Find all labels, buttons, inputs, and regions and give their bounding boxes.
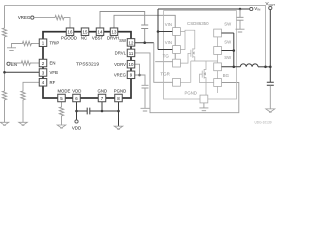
capacitor C_OUT [267, 67, 274, 86]
svg-text:TRIP: TRIP [50, 40, 60, 45]
terminal EN [7, 62, 10, 65]
node VIN pin stub [157, 30, 160, 33]
CSD pin SW 1 box [214, 29, 222, 37]
wire PGND pin8 [118, 102, 120, 126]
svg-text:VIN: VIN [165, 40, 172, 45]
node VFB junction [3, 71, 6, 74]
pin 4 RF box [39, 79, 47, 87]
resistor R_FB_bot [2, 90, 6, 101]
wire DRVL [135, 53, 239, 113]
wire BG gate [200, 74, 214, 82]
node GND junction [101, 110, 104, 113]
svg-text:MODE: MODE [57, 89, 70, 94]
wire VREG pin9 [135, 75, 145, 85]
wire [34, 17, 54, 19]
svg-text:16: 16 [68, 30, 73, 35]
pin 15 NC box [81, 28, 89, 36]
pin 16 PGOOD box [66, 28, 74, 36]
svg-text:DRVL: DRVL [115, 51, 127, 56]
wire TGR internal riser [180, 61, 190, 82]
node VOUT junction [269, 66, 272, 69]
svg-text:PGND: PGND [114, 89, 126, 94]
CSD pin VIN 2 box [173, 46, 181, 54]
wire SW output [222, 66, 241, 68]
node VREG junction [138, 74, 141, 77]
pin 14 VBST box [96, 28, 104, 36]
wire [65, 18, 71, 28]
svg-text:CSD86350: CSD86350 [187, 21, 209, 26]
svg-text:10: 10 [129, 62, 134, 67]
wire VBST [100, 12, 145, 28]
terminal V_IN [250, 7, 253, 10]
pin 9 VREG box [127, 71, 135, 79]
wire SW rail [233, 33, 235, 67]
wire feedback divider rail [4, 6, 6, 28]
wire MODE resistor [61, 102, 63, 106]
svg-text:15: 15 [83, 30, 88, 35]
CSD pin VIN 1 box [173, 28, 181, 36]
transistor Q_high internal drain wire [180, 30, 194, 49]
svg-text:GND: GND [98, 89, 108, 94]
resistor R_FB_top [2, 27, 6, 38]
svg-text:UDG-10139: UDG-10139 [254, 120, 271, 124]
svg-text:EN: EN [50, 61, 56, 66]
wire SW1 stub [222, 32, 234, 34]
node SW/BST junction [143, 41, 146, 44]
svg-text:VDD: VDD [72, 89, 81, 94]
resistor R_RF [21, 90, 25, 101]
node PGND junction [117, 110, 120, 113]
capacitor C_VREG [142, 85, 149, 88]
wire [61, 117, 63, 126]
ground bar (C_IN) [236, 29, 245, 32]
CSD pin SW 2 box [214, 47, 222, 55]
svg-text:SW: SW [119, 38, 127, 43]
terminal VREG [31, 16, 34, 19]
svg-text:VDD: VDD [72, 126, 81, 131]
wire [144, 29, 146, 43]
svg-text:NC: NC [81, 36, 87, 41]
wire VOUT drop [269, 10, 271, 67]
IC U2 CSD86350 outline [164, 11, 237, 99]
pin 11 DRVL box [127, 49, 135, 57]
svg-text:SW: SW [224, 39, 232, 44]
ground bar (VREG cap) [141, 108, 150, 111]
ground arrow (C_OUT) [266, 109, 275, 112]
wire DRVH [114, 15, 175, 59]
wire [4, 38, 6, 91]
wire [22, 101, 24, 123]
wire VFB [5, 71, 40, 73]
CSD pin PGND box [200, 95, 208, 103]
wire TG stub [155, 61, 172, 63]
wire VIN stub 1 [158, 31, 173, 33]
svg-text:11: 11 [129, 51, 134, 56]
pin 12 SW box [127, 39, 135, 47]
svg-text:PGND: PGND [185, 90, 197, 95]
wire [144, 88, 146, 108]
resistor R_EN [20, 61, 31, 65]
svg-text:BG: BG [223, 73, 230, 78]
wire [258, 66, 270, 68]
terminal VDD [75, 120, 78, 123]
wire PGND to ground [203, 103, 205, 108]
wire [10, 62, 21, 64]
pin 13 DRVH box [110, 28, 118, 36]
CSD pin BG box [214, 79, 222, 87]
capacitor C_IN [237, 9, 244, 20]
pin 8 PGND box [115, 94, 123, 102]
wire [4, 101, 6, 123]
ground arrow (RF) [19, 122, 28, 125]
pin 6 VDD box [73, 94, 81, 102]
ground bar (CSD PGND) [199, 108, 208, 111]
wire RF [23, 82, 39, 90]
wire VDD [76, 102, 78, 120]
svg-text:TGR: TGR [160, 72, 170, 77]
CSD pin TGR box [173, 78, 181, 86]
ground arrow (PGND) [114, 126, 123, 129]
resistor R_MODE [59, 106, 63, 117]
svg-text:PGOOD: PGOOD [61, 36, 77, 41]
node VDD junction [75, 110, 78, 113]
pin 7 GND box [98, 94, 106, 102]
svg-text:RF: RF [50, 80, 56, 85]
transistor Q_low drain wire [204, 61, 206, 70]
svg-text:VREG: VREG [18, 15, 31, 20]
wire GND pin7 [101, 102, 103, 111]
wire [269, 85, 271, 109]
svg-text:VFB: VFB [50, 70, 58, 75]
pin 5 MODE box [58, 94, 66, 102]
svg-text:VREG: VREG [114, 73, 127, 78]
wire feedback sense top [5, 6, 266, 67]
ground arrow (MODE) [57, 125, 66, 128]
wire VIN top [158, 8, 250, 10]
wire [31, 62, 39, 64]
transistor Q_low [202, 69, 206, 95]
svg-text:TG: TG [163, 53, 170, 58]
pin 2 EN box [39, 59, 47, 67]
op-amp? no : IC U1 TPS53219 body [43, 32, 131, 98]
svg-text:VIN: VIN [165, 22, 172, 27]
node SW rail junction [233, 66, 236, 69]
svg-text:VBST: VBST [92, 36, 104, 41]
ground arrow (divider) [0, 122, 9, 125]
wire [90, 110, 119, 112]
wire SW pin12 [135, 42, 154, 44]
svg-text:12: 12 [129, 40, 134, 45]
CSD pin TG box [173, 59, 181, 67]
node VIN cap junction [239, 8, 242, 11]
svg-text:VDRV: VDRV [114, 62, 126, 67]
wire TG gate [180, 53, 191, 63]
svg-text:13: 13 [112, 30, 117, 35]
capacitor C_VDD [87, 108, 90, 115]
svg-text:DRVH: DRVH [107, 36, 119, 41]
resistor R_TRIP [21, 41, 32, 45]
wire VIN stub 2 [158, 49, 173, 51]
inductor L1 [240, 64, 258, 67]
wire SW internal [191, 60, 218, 62]
wire SW2 stub [222, 50, 234, 52]
wire VDRV tie [135, 64, 140, 75]
svg-text:14: 14 [98, 30, 103, 35]
svg-text:TPS53219: TPS53219 [76, 61, 99, 67]
transistor Q_high [191, 48, 195, 61]
svg-text:SW: SW [224, 55, 232, 60]
wire SW pin chain [217, 33, 219, 93]
pin 3 VFB box [39, 69, 47, 77]
wire [32, 43, 39, 45]
pin 1 TRIP box [39, 39, 47, 47]
CSD pin SW 3 box [214, 63, 222, 71]
node SW2 junction [233, 49, 236, 52]
wire VIN rail [157, 9, 159, 50]
wire [12, 44, 22, 48]
wire [77, 110, 88, 112]
resistor R_PGOOD [54, 15, 65, 19]
node sense junction [264, 66, 267, 69]
svg-text:SW: SW [224, 21, 232, 26]
capacitor C_BST [141, 25, 148, 29]
ground bar (TRIP) [7, 48, 16, 51]
wire [239, 20, 241, 29]
pin 10 VDRV box [127, 60, 135, 67]
